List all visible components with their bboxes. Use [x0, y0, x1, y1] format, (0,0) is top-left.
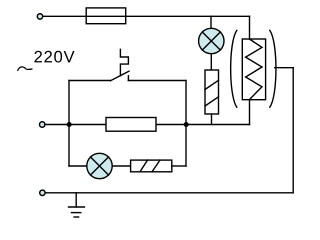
wire top main L1 [43, 15, 250, 17]
label 220V [34, 51, 74, 63]
lamp HL1 cross [202, 32, 220, 50]
heater element EK1 zigzag [246, 39, 262, 100]
wire heater bottom stub [249, 100, 251, 125]
resistor R1 [205, 70, 219, 114]
wire right rail [292, 68, 294, 193]
wire lamp2 to R3 [112, 165, 130, 167]
wire heater drop [249, 16, 251, 39]
ground bar 2 [72, 212, 81, 214]
ground bar 3 [74, 216, 79, 218]
wire left vertical branch [68, 81, 70, 167]
ground bar 1 [69, 206, 85, 208]
wire lamp2 branch left [69, 165, 87, 167]
node B junction [184, 122, 189, 127]
wire casing to right rail [275, 67, 293, 69]
lamp HL1 [199, 28, 224, 53]
heater casing left bracket [231, 30, 237, 107]
resistor R2 [106, 118, 156, 132]
ground stem [75, 193, 77, 207]
wire R1 to node wire [211, 114, 213, 125]
wire switch branch right [128, 80, 186, 82]
wire lamp1 drop [210, 16, 212, 28]
node A junction [67, 122, 72, 127]
wire R3 to right branch [172, 165, 186, 167]
switch SA1 thermal stem [120, 49, 128, 76]
resistor R3 [131, 160, 172, 172]
wire lamp1 to R1 [210, 54, 212, 70]
switch SA1 blade [111, 71, 130, 81]
fuse F1 [86, 8, 126, 24]
wire right vertical branch [185, 81, 187, 167]
wire middle row [45, 124, 250, 126]
resistor R3 hatch [140, 160, 160, 172]
heater casing right bracket [270, 30, 276, 107]
switch SA1 right contact [127, 76, 129, 81]
wire switch branch left [69, 80, 111, 82]
resistor R1 hatch [205, 80, 219, 106]
terminal X1 [37, 14, 42, 19]
label ~ [18, 67, 32, 70]
heater element EK1 body [242, 39, 265, 100]
terminal X3 [40, 190, 45, 195]
terminal X2 [40, 122, 45, 127]
wire bottom rail [45, 192, 293, 194]
lamp HL2 [87, 153, 112, 178]
lamp HL2 cross [91, 157, 109, 175]
